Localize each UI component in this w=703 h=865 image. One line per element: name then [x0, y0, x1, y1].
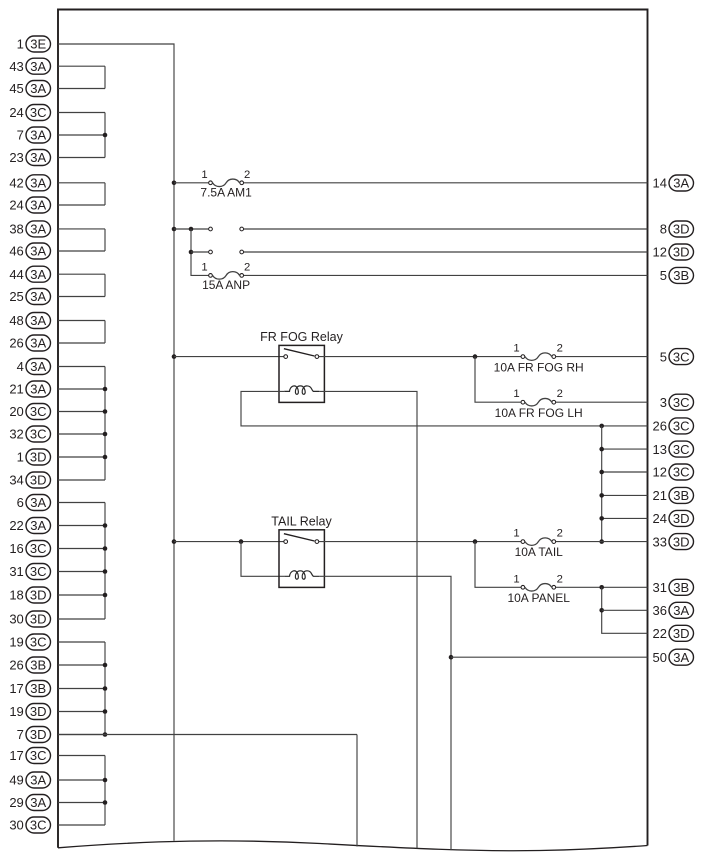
wire: fuse ANP to pin 5 3B: [244, 274, 648, 276]
wire: FOG RH fuse to pin 5 3C: [556, 356, 648, 358]
svg-text:3C: 3C: [673, 395, 690, 410]
svg-text:2: 2: [557, 528, 563, 540]
svg-text:48: 48: [9, 313, 23, 328]
junction on bracket at y=434: [103, 432, 108, 437]
svg-text:3: 3: [660, 395, 667, 410]
svg-text:7: 7: [17, 128, 24, 143]
junction on bracket at y=389: [103, 387, 108, 392]
connector pin 31 3C (left, y=571.5): [9, 564, 50, 580]
svg-text:6: 6: [17, 495, 24, 510]
junction row 33 3D: [599, 539, 604, 544]
wire: TAIL coil feed branch down and into coil: [241, 542, 284, 577]
junction on bracket at y=688.5: [103, 686, 108, 691]
connector pin 30 3D (left, y=619): [9, 611, 50, 627]
svg-text:3B: 3B: [30, 681, 46, 696]
svg-text:3A: 3A: [30, 198, 46, 213]
svg-text:3A: 3A: [30, 359, 46, 374]
svg-text:3D: 3D: [673, 245, 690, 260]
empty fuse slot terminals (row 8 3D): [209, 227, 244, 231]
connector pin 14 3A (right, y=183): [653, 175, 694, 191]
junction on bracket at y=571.5: [103, 569, 108, 574]
svg-text:3A: 3A: [30, 518, 46, 533]
svg-text:3A: 3A: [673, 176, 689, 191]
wire: fuse AM1 to pin 14 3A: [244, 182, 648, 184]
svg-text:3A: 3A: [30, 382, 46, 397]
svg-text:36: 36: [653, 603, 667, 618]
svg-text:44: 44: [9, 267, 23, 282]
fuse 7.5A AM1: [200, 169, 252, 200]
connector pin 1 3D (left, y=457): [17, 449, 51, 465]
svg-text:3A: 3A: [30, 495, 46, 510]
wire: node to pin 13 3C: [602, 448, 648, 450]
wire: FOG LH fuse to pin 3 3C: [556, 401, 648, 403]
wire: bus to slot terminal (row 8 3D): [174, 228, 208, 230]
connector pin 44 3A (left, y=274.2): [9, 266, 50, 282]
junction bus / AM1 fuse row: [172, 181, 177, 186]
connector pin 22 3A (left, y=525.5): [9, 518, 50, 534]
connector pin 31 3B (right, y=587.3): [653, 579, 694, 595]
svg-text:10A PANEL: 10A PANEL: [507, 591, 570, 605]
wire: left pin group bracket y 66.2-88.5: [58, 66, 105, 88]
svg-text:3A: 3A: [673, 650, 689, 665]
svg-text:2: 2: [557, 343, 563, 355]
svg-text:3A: 3A: [30, 336, 46, 351]
svg-text:10A FR FOG LH: 10A FR FOG LH: [495, 406, 583, 420]
junction row 50 3A: [449, 655, 454, 660]
wire: left pin group bracket y 366.5-480: [58, 367, 105, 481]
junction bus / TAIL relay feed: [172, 539, 177, 544]
empty fuse slot terminals (row 12 3D): [209, 250, 244, 254]
connector pin 24 3A (left, y=205): [9, 197, 50, 213]
svg-text:3C: 3C: [30, 635, 47, 650]
junction row 13 3C: [599, 447, 604, 452]
svg-text:5: 5: [660, 268, 667, 283]
connector pin 26 3C (right, y=425.9): [653, 418, 694, 434]
wire: node to pin 36 3A: [602, 609, 648, 611]
svg-text:21: 21: [653, 488, 667, 503]
svg-text:2: 2: [557, 388, 563, 400]
connector pin 33 3D (right, y=541.6): [653, 534, 694, 550]
svg-text:1: 1: [513, 528, 519, 540]
wire: left pin group bracket y 320.5-343: [58, 321, 105, 344]
wire: TAIL relay switch out to TAIL/PANEL fuses: [319, 541, 523, 543]
junction on bracket at y=457: [103, 455, 108, 460]
svg-text:25: 25: [9, 289, 23, 304]
svg-text:3B: 3B: [30, 658, 46, 673]
connector pin 8 3D (right, y=229): [660, 221, 694, 237]
wire: sub-branch to slot terminal (row 12 3D): [191, 251, 208, 253]
wire: node vertical x=601.7 (rows 31 3B - 22 3D): [602, 587, 648, 633]
svg-text:23: 23: [9, 150, 23, 165]
svg-text:1: 1: [513, 388, 519, 400]
svg-text:34: 34: [9, 473, 23, 488]
connector pin 21 3A (left, y=389): [9, 381, 50, 397]
wire: FR FOG relay coil feed (right) down to torn edge: [319, 391, 417, 848]
junction sub-branch at x=191: [189, 227, 194, 232]
wire: relay switch out to FOG fuses: [319, 356, 523, 358]
svg-text:38: 38: [9, 222, 23, 237]
connector pin 19 3C (left, y=642): [9, 634, 50, 650]
svg-text:17: 17: [9, 748, 23, 763]
svg-text:3D: 3D: [673, 626, 690, 641]
wire: TAIL relay coil return (right) down to torn edge: [319, 576, 451, 850]
svg-text:3A: 3A: [30, 773, 46, 788]
svg-text:3A: 3A: [30, 176, 46, 191]
svg-text:10A TAIL: 10A TAIL: [515, 545, 564, 559]
connector pin 26 3A (left, y=343): [9, 335, 50, 351]
svg-text:3D: 3D: [673, 534, 690, 549]
svg-text:3A: 3A: [30, 267, 46, 282]
connector pin 43 3A (left, y=66.2): [9, 58, 50, 74]
svg-text:15A ANP: 15A ANP: [202, 278, 250, 292]
wire: left pin group bracket y 112.5-157.5: [58, 113, 105, 158]
svg-text:3D: 3D: [30, 612, 47, 627]
svg-text:3A: 3A: [30, 59, 46, 74]
wire: pin 1 3E feed to main vertical bus: [58, 44, 174, 841]
connector pin 46 3A (left, y=251): [9, 243, 50, 259]
wire: split down to PANEL fuse: [475, 542, 521, 588]
svg-text:3D: 3D: [673, 222, 690, 237]
svg-text:30: 30: [9, 818, 23, 833]
connector pin 12 3D (right, y=252): [653, 244, 694, 260]
svg-text:31: 31: [9, 564, 23, 579]
svg-text:3C: 3C: [673, 442, 690, 457]
connector pin 6 3A (left, y=502.5): [17, 495, 51, 511]
connector pin 19 3D (left, y=711.5): [9, 704, 50, 720]
wire: left pin group bracket y 642-734.5: [58, 642, 105, 735]
junction on bracket at y=780: [103, 778, 108, 783]
relay TAIL Relay: [271, 514, 332, 587]
connector pin 42 3A (left, y=182.8): [9, 175, 50, 191]
svg-text:TAIL Relay: TAIL Relay: [271, 514, 332, 528]
svg-text:17: 17: [9, 681, 23, 696]
svg-text:1: 1: [201, 262, 207, 274]
svg-text:3D: 3D: [30, 704, 47, 719]
connector pin 24 3C (left, y=112.5): [9, 105, 50, 121]
junction TAIL coil branch: [239, 539, 244, 544]
wire: FR FOG relay coil return (left) to node row 26 3C: [241, 391, 648, 426]
junction bus / row 8 3D: [172, 227, 177, 232]
svg-text:3C: 3C: [30, 564, 47, 579]
svg-text:5: 5: [660, 349, 667, 364]
svg-text:3B: 3B: [673, 268, 689, 283]
wire: node to pin 21 3B: [602, 494, 648, 496]
connector pin 26 3B (left, y=665): [9, 657, 50, 673]
svg-text:3A: 3A: [30, 795, 46, 810]
connector pin 3 3C (right, y=402.2): [660, 394, 694, 410]
connector pin 5 3C (right, y=356.6): [660, 349, 694, 365]
connector pin 24 3D (right, y=518.4): [653, 510, 694, 526]
svg-text:33: 33: [653, 534, 667, 549]
junction on bracket at y=135: [103, 133, 108, 138]
svg-text:19: 19: [9, 635, 23, 650]
svg-text:3C: 3C: [30, 818, 47, 833]
svg-text:1: 1: [17, 37, 24, 52]
svg-text:20: 20: [9, 404, 23, 419]
wire: slot to pin 8 3D: [244, 228, 648, 230]
junction on bracket at y=595: [103, 593, 108, 598]
connector pin 34 3D (left, y=480): [9, 472, 50, 488]
wire: left pin group bracket y 182.8-205: [58, 183, 105, 205]
svg-text:32: 32: [9, 427, 23, 442]
junction on bracket at y=548.5: [103, 546, 108, 551]
svg-text:22: 22: [9, 518, 23, 533]
junction row 21 3B: [599, 493, 604, 498]
wire: pin 7 3D horizontal: [58, 734, 357, 736]
wire: bus to fuse AM1: [174, 182, 208, 184]
svg-text:7: 7: [17, 727, 24, 742]
junction row 31 3B: [599, 585, 604, 590]
svg-text:2: 2: [244, 262, 250, 274]
connector pin 5 3B (right, y=275.4): [660, 267, 694, 283]
svg-text:3C: 3C: [30, 427, 47, 442]
junction row 36 3A: [599, 608, 604, 613]
junction row 24 3D: [599, 516, 604, 521]
connector pin 36 3A (right, y=610.3): [653, 602, 694, 618]
junction node row 26 3C: [599, 424, 604, 429]
junction bus / FR FOG relay feed: [172, 354, 177, 359]
connector pin 17 3C (left, y=755.5): [9, 748, 50, 764]
connector pin 17 3B (left, y=688.5): [9, 681, 50, 697]
svg-text:30: 30: [9, 612, 23, 627]
junction on bracket at y=711.5: [103, 709, 108, 714]
connector pin 22 3D (right, y=633.3): [653, 625, 694, 641]
connector pin 45 3A (left, y=88.5): [9, 81, 50, 97]
junction on bracket at y=665: [103, 663, 108, 668]
svg-text:3A: 3A: [30, 128, 46, 143]
svg-text:42: 42: [9, 176, 23, 191]
connector pin 38 3A (left, y=228.9): [9, 221, 50, 237]
svg-text:3D: 3D: [30, 727, 47, 742]
svg-text:14: 14: [653, 176, 667, 191]
relay FR FOG Relay: [260, 330, 343, 402]
wire: node vertical x=601.7 (rows 26 3C - 33 3D): [601, 426, 603, 542]
fuse 15A ANP: [201, 262, 250, 293]
svg-text:1: 1: [17, 450, 24, 465]
svg-text:7.5A AM1: 7.5A AM1: [200, 186, 252, 200]
connector pin 21 3B (right, y=495.4): [653, 487, 694, 503]
fuse 10A TAIL: [513, 528, 563, 560]
svg-text:3C: 3C: [30, 748, 47, 763]
svg-text:26: 26: [9, 336, 23, 351]
junction on bracket at y=411.5: [103, 409, 108, 414]
wire: left pin group bracket y 274.2-296.5: [58, 274, 105, 296]
connector pin 48 3A (left, y=320.5): [9, 313, 50, 329]
connector pin 20 3C (left, y=411.5): [9, 404, 50, 420]
connector pin 29 3A (left, y=802.5): [9, 795, 50, 811]
fuse 10A FR FOG LH: [495, 388, 583, 420]
junction FOG RH / LH split: [473, 354, 478, 359]
svg-text:10A FR FOG RH: 10A FR FOG RH: [494, 360, 584, 374]
connector pin 30 3C (left, y=825): [9, 817, 50, 833]
svg-text:29: 29: [9, 795, 23, 810]
junction on bracket at y=802.5: [103, 800, 108, 805]
junction sub-branch / row 12 3D: [189, 250, 194, 255]
wire: left pin group bracket y 755.5-825: [58, 756, 105, 826]
svg-text:3E: 3E: [30, 37, 46, 52]
wire: split down to FOG LH fuse: [475, 357, 521, 403]
connector pin 13 3C (right, y=449.1): [653, 441, 694, 457]
svg-text:3A: 3A: [30, 313, 46, 328]
connector pin 7 3A (left, y=135): [17, 127, 51, 143]
svg-text:3C: 3C: [30, 105, 47, 120]
svg-text:24: 24: [9, 105, 23, 120]
svg-text:18: 18: [9, 588, 23, 603]
svg-text:26: 26: [9, 658, 23, 673]
svg-text:3A: 3A: [30, 150, 46, 165]
svg-text:3A: 3A: [30, 222, 46, 237]
svg-text:26: 26: [653, 419, 667, 434]
svg-text:2: 2: [244, 169, 250, 181]
svg-text:45: 45: [9, 81, 23, 96]
wire: pin 7 3D long run to torn edge: [356, 735, 358, 847]
svg-text:3D: 3D: [30, 588, 47, 603]
svg-text:8: 8: [660, 222, 667, 237]
svg-text:19: 19: [9, 704, 23, 719]
svg-text:50: 50: [653, 650, 667, 665]
wire: slot to pin 12 3D: [244, 251, 648, 253]
svg-text:12: 12: [653, 245, 667, 260]
wire: PANEL fuse to pin 31 3B: [556, 586, 648, 588]
svg-text:21: 21: [9, 382, 23, 397]
junction TAIL / PANEL split: [473, 539, 478, 544]
svg-text:13: 13: [653, 442, 667, 457]
connector pin 25 3A (left, y=296.5): [9, 289, 50, 305]
junction on bracket at y=525.5: [103, 523, 108, 528]
svg-text:3B: 3B: [673, 488, 689, 503]
svg-text:22: 22: [653, 626, 667, 641]
svg-text:1: 1: [201, 169, 207, 181]
svg-text:3C: 3C: [673, 349, 690, 364]
svg-text:3B: 3B: [673, 580, 689, 595]
svg-text:3C: 3C: [673, 465, 690, 480]
wire: node to pin 12 3C: [602, 471, 648, 473]
wire: sub-branch vertical x=191 down to ANP fuse: [191, 229, 208, 275]
svg-text:24: 24: [653, 511, 667, 526]
svg-text:FR FOG Relay: FR FOG Relay: [260, 330, 343, 344]
connector pin 16 3C (left, y=548.5): [9, 541, 50, 557]
svg-text:3C: 3C: [30, 541, 47, 556]
svg-text:3D: 3D: [673, 511, 690, 526]
wire: node to pin 24 3D: [602, 517, 648, 519]
connector pin 4 3A (left, y=366.5): [17, 359, 51, 375]
wire: left pin group bracket y 502.5-619: [58, 503, 105, 620]
svg-text:2: 2: [557, 573, 563, 585]
svg-text:43: 43: [9, 59, 23, 74]
svg-text:49: 49: [9, 773, 23, 788]
connector pin 49 3A (left, y=780): [9, 772, 50, 788]
wire: left pin group bracket y 228.9-251: [58, 229, 105, 251]
svg-text:46: 46: [9, 244, 23, 259]
junction row 12 3C: [599, 470, 604, 475]
svg-text:3C: 3C: [30, 404, 47, 419]
connector pin 12 3C (right, y=472): [653, 464, 694, 480]
svg-text:1: 1: [513, 343, 519, 355]
connector pin 7 3D (left, y=734.5): [17, 727, 51, 743]
svg-text:3D: 3D: [30, 473, 47, 488]
connector pin 50 3A (right, y=657.2): [653, 649, 694, 665]
svg-text:16: 16: [9, 541, 23, 556]
svg-text:12: 12: [653, 465, 667, 480]
svg-text:31: 31: [653, 580, 667, 595]
junction on bracket at y=734.5: [103, 732, 108, 737]
fuse 10A FR FOG RH: [494, 343, 584, 375]
svg-text:3C: 3C: [673, 419, 690, 434]
wire: bus to FR FOG relay switch: [174, 356, 284, 358]
connector pin 32 3C (left, y=434): [9, 426, 50, 442]
svg-text:3A: 3A: [673, 603, 689, 618]
svg-text:1: 1: [513, 573, 519, 585]
wire: TAIL fuse to pin 33 3D: [556, 541, 648, 543]
svg-text:24: 24: [9, 198, 23, 213]
svg-text:3A: 3A: [30, 289, 46, 304]
svg-text:3A: 3A: [30, 244, 46, 259]
svg-text:3A: 3A: [30, 81, 46, 96]
connector pin 18 3D (left, y=595): [9, 587, 50, 603]
connector pin 23 3A (left, y=157.5): [9, 150, 50, 166]
fuse 10A PANEL: [507, 573, 570, 605]
svg-text:3D: 3D: [30, 450, 47, 465]
wire: branch to pin 50 3A: [451, 656, 648, 658]
svg-text:4: 4: [17, 359, 24, 374]
connector pin 1 3E (left, y=44): [17, 36, 51, 52]
wire: bus to TAIL relay switch: [174, 541, 284, 543]
